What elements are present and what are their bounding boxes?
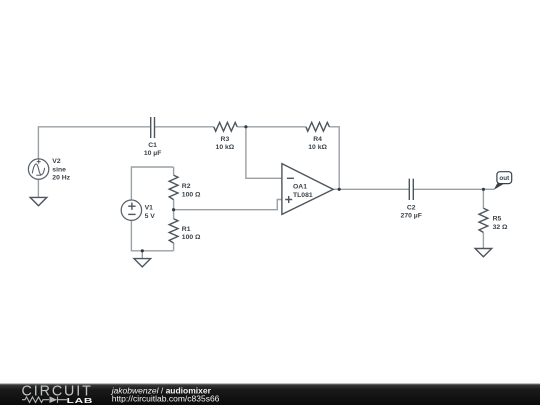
label R4 bbox=[308, 136, 327, 151]
op-amp OA1 bbox=[282, 164, 333, 215]
node D (ground of V1 loop) bbox=[141, 249, 144, 252]
svg-text:sine: sine bbox=[52, 166, 66, 173]
label OA1 bbox=[293, 184, 313, 199]
wire V1 bottom to loop bottom bbox=[131, 221, 173, 251]
svg-text:10 µF: 10 µF bbox=[144, 150, 162, 157]
wire node E to R1 bbox=[173, 210, 175, 219]
svg-text:V2: V2 bbox=[52, 158, 61, 165]
label V2 bbox=[52, 158, 70, 181]
label R2 bbox=[182, 183, 201, 199]
resistor R1 bbox=[169, 219, 178, 243]
svg-text:5 V: 5 V bbox=[145, 213, 156, 220]
svg-text:20 Hz: 20 Hz bbox=[52, 174, 70, 181]
out flag bbox=[494, 172, 512, 190]
svg-text:R5: R5 bbox=[493, 216, 502, 223]
svg-text:LAB: LAB bbox=[67, 397, 94, 405]
wire R1 to bottom bbox=[173, 243, 175, 251]
wire R4 right corner down to output node bbox=[329, 127, 339, 190]
wire op-amp output to C2 bbox=[333, 188, 409, 190]
wire V2 top to C1 bbox=[38, 127, 150, 159]
node A bbox=[244, 125, 247, 128]
svg-text:32 Ω: 32 Ω bbox=[493, 224, 508, 231]
label C2 bbox=[401, 205, 422, 220]
wire C1 to R3 bbox=[155, 126, 214, 128]
footer credit text bbox=[111, 385, 220, 403]
svg-text:R3: R3 bbox=[221, 136, 230, 143]
node C (R5 top) bbox=[482, 188, 485, 191]
wire top to R2 bbox=[173, 167, 175, 175]
CircuitLab logo bbox=[22, 384, 94, 405]
wire ground stem below node D bbox=[141, 251, 143, 259]
resistor R5 bbox=[479, 208, 488, 232]
wire node E to op-amp noninverting input bbox=[174, 200, 282, 210]
wire V2 bottom to ground bbox=[37, 179, 39, 197]
svg-text:out: out bbox=[499, 175, 510, 182]
label V1 bbox=[145, 205, 156, 220]
svg-text:V1: V1 bbox=[145, 205, 154, 212]
wire node C down to R5 bbox=[482, 189, 484, 208]
node E (R1-R2 midpoint) bbox=[172, 208, 175, 211]
svg-text:R2: R2 bbox=[182, 183, 191, 190]
svg-text:R4: R4 bbox=[313, 136, 322, 143]
svg-text:C2: C2 bbox=[407, 205, 416, 212]
svg-text:100 Ω: 100 Ω bbox=[182, 192, 201, 199]
resistor R4 bbox=[306, 122, 330, 131]
wire R5 to ground bbox=[482, 232, 484, 248]
source V1 bbox=[121, 200, 141, 220]
svg-text:C1: C1 bbox=[148, 142, 157, 149]
label C1 bbox=[144, 142, 162, 157]
source V2 bbox=[28, 159, 48, 179]
wire C2 to out flag bbox=[413, 188, 494, 190]
label R1 bbox=[182, 226, 201, 241]
label R3 bbox=[216, 136, 235, 151]
svg-text:OA1: OA1 bbox=[293, 184, 307, 191]
svg-text:270 µF: 270 µF bbox=[401, 212, 422, 219]
svg-text:R1: R1 bbox=[182, 226, 191, 233]
wire R3 to R4 through node A bbox=[237, 126, 306, 128]
label R5 bbox=[493, 216, 508, 231]
wire V1 loop left side bbox=[131, 167, 173, 200]
svg-text:10 kΩ: 10 kΩ bbox=[308, 144, 327, 151]
capacitor C2 bbox=[409, 179, 413, 200]
ground for V2 bbox=[30, 197, 47, 205]
ground for R5 bbox=[475, 249, 492, 257]
resistor R2 bbox=[169, 175, 178, 199]
node B (op-amp output) bbox=[338, 188, 341, 191]
svg-text:TL081: TL081 bbox=[293, 192, 313, 199]
svg-text:100 Ω: 100 Ω bbox=[182, 234, 201, 241]
wire node A down to op-amp inverting input bbox=[246, 127, 282, 179]
capacitor C1 bbox=[151, 117, 155, 138]
svg-text:10 kΩ: 10 kΩ bbox=[216, 144, 235, 151]
ground for V1 bbox=[134, 259, 151, 267]
resistor R3 bbox=[214, 122, 237, 131]
wire R2 to node E bbox=[173, 200, 175, 210]
svg-text:http://circuitlab.com/c835s66: http://circuitlab.com/c835s66 bbox=[112, 394, 220, 404]
